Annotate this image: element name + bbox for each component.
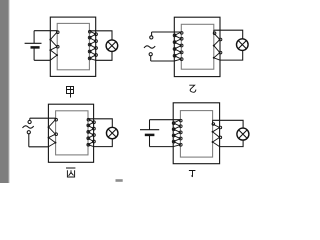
wire secondary bottom to lamp (jia) (96, 52, 112, 61)
secondary coil L2 4 turns (jia) (88, 30, 97, 60)
primary coil L7 4 turns (ding) (172, 119, 182, 146)
core T2 outer core edge (174, 17, 220, 76)
core T4 outer core edge (173, 103, 219, 164)
secondary coil L4 3 turns (yi) (213, 30, 222, 60)
secondary coil L8 3 turns (ding) (212, 120, 222, 146)
core T1 inner core edge (57, 23, 89, 69)
primary coil L3 4 turns (yi) (173, 32, 183, 61)
primary coil L5 3 turns (bing) (48, 118, 58, 146)
core T3 outer core edge (48, 104, 93, 162)
wire battery negative to primary bottom (ding) (150, 146, 174, 148)
wire secondary bottom to lamp (ding) (220, 140, 244, 147)
battery G2 (ding) (140, 120, 159, 147)
wire AC top terminal to primary top (bing) (30, 117, 56, 119)
wire battery positive to primary top (jia) (34, 30, 57, 32)
grey scrollbar dash bottom (116, 179, 123, 182)
core T2 inner core edge (181, 24, 214, 69)
wire AC top terminal to primary top (yi) (152, 31, 182, 33)
lamp EL3 (bing) (106, 127, 118, 139)
lamp EL2 (yi) (237, 39, 249, 51)
core T4 inner core edge (180, 111, 212, 158)
battery G1 (jia) (25, 31, 42, 61)
lamp EL1 (jia) (106, 40, 118, 52)
lamp EL4 (ding) (237, 128, 249, 140)
wire secondary top to lamp (ding) (213, 120, 244, 128)
wire battery negative to primary bottom (jia) (34, 59, 50, 61)
wire secondary top to lamp (yi) (214, 30, 243, 39)
secondary coil L6 4 turns (bing) (87, 118, 95, 146)
label yi (189, 85, 196, 92)
primary coil L1 3 turns (jia) (49, 31, 59, 60)
core T3 inner core edge (56, 111, 88, 155)
label bing (66, 168, 75, 177)
wire AC bottom terminal to primary bottom (yi) (151, 60, 175, 62)
core T1 outer core edge (50, 17, 95, 76)
wire secondary top to lamp (bing) (88, 119, 112, 128)
label ding (189, 171, 196, 177)
wire secondary bottom to lamp (bing) (94, 139, 113, 147)
wire secondary top to lamp (jia) (89, 31, 112, 40)
wire AC bottom terminal to primary bottom (bing) (29, 146, 49, 148)
label jia (67, 87, 74, 98)
wire secondary bottom to lamp (yi) (220, 50, 243, 60)
AC source (yi) (144, 32, 155, 61)
AC source (bing) (23, 118, 34, 147)
wire battery positive to primary top (ding) (150, 119, 181, 121)
